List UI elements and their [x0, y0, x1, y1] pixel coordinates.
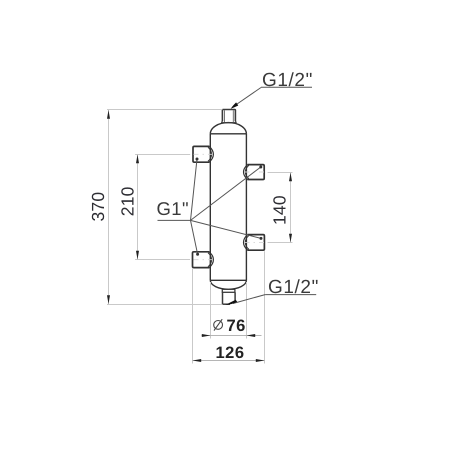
dim 210 extension line bottom	[135, 259, 190, 261]
dim 370 extension line bottom	[107, 304, 222, 306]
label G1/2 top underline	[261, 86, 312, 88]
label G1 underline	[158, 219, 191, 221]
dim 126 extension line right	[264, 251, 266, 363]
dim 210 arrow down	[136, 251, 139, 260]
leader dot right lower	[260, 237, 263, 240]
dim 210 dimension line	[137, 155, 139, 260]
label G1/2 bottom underline	[265, 294, 316, 296]
dim 76 arrow right (points left at ext line)	[247, 334, 256, 337]
leader dot left lower	[196, 253, 199, 256]
bottom connection stub	[223, 292, 236, 304]
svg-text:140: 140	[270, 195, 290, 225]
separator body shell	[210, 134, 246, 280]
dim 76 arrow left (points right at ext line)	[202, 334, 211, 337]
body bottom dished head	[210, 280, 246, 289]
leader dot left upper	[196, 158, 199, 161]
svg-text:G1": G1"	[157, 198, 189, 219]
top stub inner thread lines	[225, 110, 234, 122]
dim 126 extension line left	[192, 269, 194, 364]
leader to bottom stub	[233, 295, 265, 304]
dim 210 extension line top	[135, 154, 190, 156]
top connection stub	[221, 110, 236, 123]
leader to top stub	[232, 88, 261, 108]
leader arrow top stub	[231, 102, 239, 108]
right upper connection G1	[244, 165, 265, 180]
dim 126 dimension line	[193, 360, 265, 362]
svg-text:G1/2": G1/2"	[262, 70, 313, 91]
leader dot right upper	[259, 166, 262, 169]
diameter symbol	[214, 319, 223, 330]
centerline right upper	[245, 171, 267, 173]
dim 370 dimension line	[108, 110, 110, 304]
leader to left upper connection	[191, 159, 198, 220]
svg-text:76: 76	[227, 317, 246, 335]
svg-text:210: 210	[118, 186, 138, 216]
dim 370 arrow down	[107, 295, 110, 304]
leader to right lower connection	[191, 220, 262, 238]
svg-text:370: 370	[88, 192, 108, 222]
dim 76 extension line left	[210, 282, 212, 339]
body top dished head	[210, 123, 246, 134]
dim 140 arrow up	[289, 173, 292, 182]
leader arrow bottom stub	[225, 300, 237, 305]
dim 76 extension line right	[246, 282, 248, 339]
left lower connection G1	[193, 252, 214, 268]
dim 126 arrow right	[256, 359, 265, 362]
left upper connection G1	[193, 146, 213, 162]
centerline left upper	[194, 153, 213, 155]
right lower connection G1	[244, 235, 265, 251]
centerline right lower	[245, 241, 267, 243]
dim 140 extension line top	[268, 172, 293, 174]
dim 140 dimension line	[290, 173, 292, 243]
leader to left lower connection	[191, 220, 198, 254]
dim 76 dimension line	[202, 335, 262, 337]
bottom connection stub flange	[222, 289, 236, 292]
centerline left lower	[194, 259, 213, 261]
dim 370 arrow up	[107, 110, 110, 119]
dim 140 arrow down	[289, 234, 292, 243]
dim 210 arrow up	[136, 155, 139, 164]
dim 126 arrow left	[193, 359, 202, 362]
dim 140 extension line bottom	[268, 242, 293, 244]
dim 370 extension line top	[107, 109, 222, 111]
svg-text:126: 126	[215, 344, 244, 362]
leader to right upper connection	[191, 167, 261, 220]
